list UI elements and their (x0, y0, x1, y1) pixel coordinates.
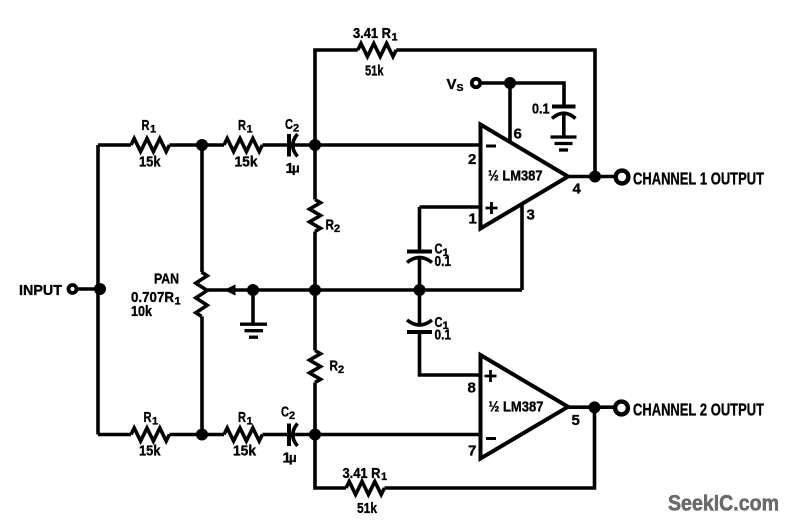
svg-text:1: 1 (247, 415, 253, 427)
svg-text:15k: 15k (235, 154, 259, 171)
svg-text:3.41 R: 3.41 R (353, 25, 391, 42)
svg-text:2: 2 (468, 151, 476, 168)
svg-text:μ: μ (292, 162, 300, 176)
svg-text:51k: 51k (365, 63, 384, 80)
svg-text:1: 1 (469, 210, 477, 227)
svg-text:½ LM387: ½ LM387 (488, 167, 543, 184)
svg-text:R: R (326, 217, 335, 234)
svg-text:7: 7 (468, 442, 476, 459)
svg-text:2: 2 (334, 223, 340, 235)
svg-text:1: 1 (175, 295, 181, 307)
svg-text:3: 3 (527, 206, 535, 223)
svg-text:SeekIC.com: SeekIC.com (668, 491, 779, 516)
svg-text:2: 2 (338, 364, 344, 376)
svg-text:C: C (281, 404, 289, 421)
svg-text:INPUT: INPUT (19, 282, 62, 299)
svg-text:C: C (285, 116, 293, 133)
svg-text:S: S (457, 82, 464, 94)
svg-text:51k: 51k (357, 500, 378, 517)
svg-text:8: 8 (468, 379, 476, 396)
svg-text:R: R (142, 117, 150, 134)
svg-text:PAN: PAN (154, 270, 179, 287)
svg-text:½ LM387: ½ LM387 (489, 398, 544, 415)
svg-text:15k: 15k (139, 443, 161, 460)
svg-text:2: 2 (289, 410, 295, 422)
svg-text:1: 1 (392, 32, 398, 44)
svg-text:15k: 15k (233, 443, 257, 460)
svg-text:0.1: 0.1 (435, 253, 452, 270)
svg-text:R: R (330, 358, 339, 375)
svg-text:R: R (238, 409, 246, 426)
svg-text:CHANNEL 2 OUTPUT: CHANNEL 2 OUTPUT (633, 399, 764, 419)
svg-text:6: 6 (514, 126, 522, 143)
svg-text:μ: μ (289, 451, 297, 465)
svg-text:1: 1 (247, 123, 253, 135)
svg-text:15k: 15k (139, 154, 161, 171)
svg-text:1: 1 (381, 471, 387, 483)
svg-text:3.41 R: 3.41 R (343, 465, 381, 482)
svg-text:1: 1 (150, 123, 156, 135)
svg-text:1: 1 (152, 415, 158, 427)
svg-text:5: 5 (572, 412, 580, 429)
svg-text:V: V (447, 76, 457, 93)
svg-text:R: R (144, 409, 152, 426)
svg-text:R: R (238, 117, 246, 134)
svg-text:4: 4 (573, 180, 582, 197)
svg-text:10k: 10k (131, 303, 153, 320)
svg-text:0.1: 0.1 (532, 101, 550, 118)
svg-text:2: 2 (293, 122, 299, 134)
svg-text:CHANNEL 1 OUTPUT: CHANNEL 1 OUTPUT (633, 169, 764, 189)
svg-text:0.1: 0.1 (435, 327, 452, 344)
